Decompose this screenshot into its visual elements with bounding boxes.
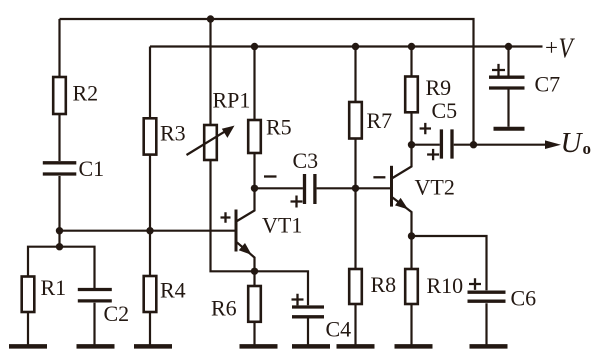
node dot VT2 emitter/R10/C6 xyxy=(408,232,415,239)
wire R1 branch xyxy=(28,247,60,345)
svg-text:C6: C6 xyxy=(511,285,537,310)
node dot R1/C2 xyxy=(56,243,63,250)
svg-text:VT1: VT1 xyxy=(262,212,302,237)
ground C6 xyxy=(470,344,508,349)
svg-text:C5: C5 xyxy=(432,98,458,123)
wire C2 branch xyxy=(60,247,95,345)
svg-text:R2: R2 xyxy=(73,81,99,106)
resistor R2 xyxy=(53,77,66,114)
svg-text:U: U xyxy=(561,127,584,159)
svg-text:R7: R7 xyxy=(367,108,393,133)
wire R5 column x=254.5 xyxy=(253,47,255,189)
plus C6 xyxy=(469,278,481,290)
capacitor C2 plates xyxy=(78,290,112,301)
plus VT1 base xyxy=(221,212,231,223)
resistor R10 xyxy=(405,269,418,304)
wire VT1 base wire y=230.7 xyxy=(60,230,235,232)
resistor R4 xyxy=(144,276,157,312)
minus VT2 base xyxy=(373,176,385,178)
plus C5 lower xyxy=(427,149,439,160)
plus C3 xyxy=(291,196,303,208)
wire RP1 column x=210.5 and bottom corner to emitter node xyxy=(211,19,255,271)
ground R8 xyxy=(337,344,375,349)
wire R9 column x=411.5 xyxy=(410,47,412,145)
capacitor C7 plates xyxy=(489,77,525,88)
ground C2 xyxy=(77,344,115,349)
svg-text:C7: C7 xyxy=(535,71,561,96)
node dot VT1 collector/R5/C3 xyxy=(251,185,258,192)
node dot rail/C7 xyxy=(505,43,512,50)
resistor R1 xyxy=(22,277,35,313)
svg-text:R3: R3 xyxy=(160,121,186,146)
wire R10 leads xyxy=(410,236,412,345)
wire R2/C1 column x=59.5 xyxy=(58,19,60,247)
plus C4 xyxy=(292,294,304,306)
svg-text:VT2: VT2 xyxy=(415,175,455,200)
capacitor C1 plates xyxy=(43,163,77,174)
svg-text:C1: C1 xyxy=(79,156,105,181)
svg-text:R5: R5 xyxy=(266,115,292,140)
capacitor C4 plates xyxy=(292,307,324,317)
svg-text:V: V xyxy=(559,32,576,64)
svg-text:C3: C3 xyxy=(293,148,319,173)
node dot C1/base wire xyxy=(56,227,63,234)
svg-text:R8: R8 xyxy=(371,272,397,297)
svg-text:R6: R6 xyxy=(211,296,237,321)
ground C7 xyxy=(494,127,525,131)
wire VT2 emitter node to C6 xyxy=(412,236,487,345)
node dot rail/R9 xyxy=(408,43,415,50)
output arrow xyxy=(545,140,561,149)
wire C3 row y=188.3 xyxy=(255,187,391,189)
wire C7 leads xyxy=(507,47,509,127)
wire R3/R4 column x=150 xyxy=(149,47,151,345)
svg-text:R1: R1 xyxy=(41,275,67,300)
plus C7 xyxy=(492,64,505,76)
minus C3 left xyxy=(264,175,277,177)
svg-text:+: + xyxy=(545,35,558,60)
capacitor C5 plates xyxy=(441,129,452,158)
ground C4 xyxy=(292,344,330,349)
node dot VT1 emitter/R6 xyxy=(251,268,258,275)
resistor R5 xyxy=(248,120,261,153)
wire R7/R8 column x=355.5 xyxy=(354,47,356,345)
wire top rail y=19 from R2 top to right turn down to output node xyxy=(60,19,474,145)
svg-text:R10: R10 xyxy=(427,273,464,298)
capacitor C6 plates xyxy=(468,292,506,301)
node dot C5 out / top rail xyxy=(470,141,477,148)
node dot R3/R4 base wire xyxy=(146,227,153,234)
wire R6 leads xyxy=(253,271,255,344)
node dot top rail / RP1 xyxy=(207,15,214,22)
resistor R8 xyxy=(349,269,362,304)
svg-text:o: o xyxy=(583,139,592,158)
ground R1 xyxy=(9,344,47,349)
svg-text:RP1: RP1 xyxy=(213,88,251,113)
resistor R3 xyxy=(144,118,157,154)
wire VT1 emitter row to C4 xyxy=(255,271,309,344)
resistor R9 xyxy=(405,77,418,113)
resistor R7 xyxy=(349,102,362,139)
ground R6 xyxy=(240,344,278,349)
resistor R6 xyxy=(248,286,261,322)
svg-text:R4: R4 xyxy=(160,278,186,303)
wire C5 row y=144.7 and output line xyxy=(412,144,547,146)
node dot rail/R7 xyxy=(352,43,359,50)
capacitor C3 plates xyxy=(305,174,315,204)
potentiometer RP1 arrow xyxy=(187,126,234,155)
node dot rail/R5 xyxy=(251,43,258,50)
node dot R7/R8/VT2 base xyxy=(352,185,359,192)
transistor VT1 xyxy=(236,188,255,271)
ground R4 xyxy=(134,344,172,349)
svg-text:C4: C4 xyxy=(326,317,352,342)
plus C5 upper xyxy=(420,123,431,134)
node dot R9/C5/VT2 collector xyxy=(408,141,415,148)
transistor VT2 xyxy=(392,145,412,236)
svg-text:R9: R9 xyxy=(426,75,452,100)
ground R10 xyxy=(395,344,433,349)
svg-text:C2: C2 xyxy=(104,301,130,326)
resistor RP1 body xyxy=(204,125,217,160)
wire +V rail y=46.5 xyxy=(150,45,543,47)
